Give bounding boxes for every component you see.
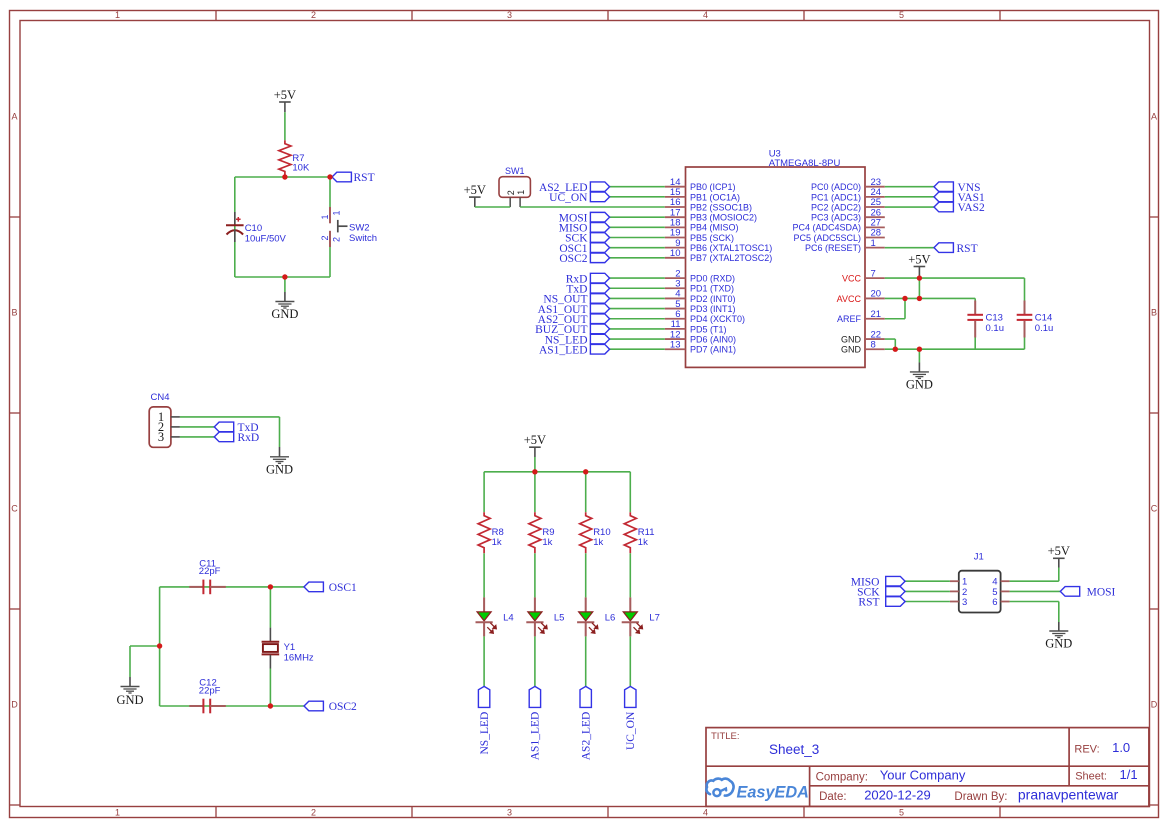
svg-text:L5: L5 (554, 613, 565, 624)
wire +5V to SW1 pin2 (475, 206, 510, 208)
svg-text:B: B (11, 308, 17, 318)
svg-text:21: 21 (871, 309, 882, 320)
switch SW1 box (499, 177, 530, 198)
connector CN4 body (149, 407, 171, 447)
svg-text:VCC: VCC (842, 274, 862, 284)
svg-text:+5V: +5V (524, 433, 546, 447)
svg-text:PB4 (MISO): PB4 (MISO) (690, 223, 739, 233)
LED L4 (476, 597, 514, 636)
wire left branch down to C10 (234, 177, 236, 277)
svg-text:RST: RST (858, 597, 879, 609)
svg-text:MOSI: MOSI (1087, 587, 1116, 599)
net flag UC_ON (549, 192, 609, 204)
net flag AS1_LED (529, 686, 542, 760)
resistor R10 1k (580, 512, 611, 553)
svg-text:C14: C14 (1035, 312, 1052, 323)
svg-text:10K: 10K (292, 163, 310, 174)
svg-text:2: 2 (311, 10, 316, 20)
net flag OSC2 (304, 701, 357, 713)
svg-text:3: 3 (158, 430, 164, 444)
resistor R11 1k (624, 512, 654, 553)
svg-text:CN4: CN4 (151, 392, 170, 403)
wire CN4 pin1 (180, 416, 280, 418)
junction LED rail b (583, 469, 588, 474)
power +5V (J1) (1048, 544, 1070, 567)
wire OSC2 to U3 (610, 257, 665, 259)
ground GND (crystal) (116, 646, 143, 707)
wire MOSI to U3 (610, 216, 665, 218)
U3 pin 23 PC0 (ADC0) (811, 177, 885, 192)
resistor R8 1k (478, 512, 504, 553)
capacitor C12 22pF (189, 678, 226, 714)
wire J1 pin4 up (1058, 568, 1060, 582)
svg-text:PD6 (AIN0): PD6 (AIN0) (690, 334, 736, 344)
svg-text:AS1_LED: AS1_LED (539, 344, 588, 356)
junction GND b (917, 347, 922, 352)
net flag AS2_OUT (538, 314, 610, 326)
wire AS2_OUT to U3 (610, 318, 665, 320)
svg-text:TITLE:: TITLE: (711, 731, 740, 742)
svg-text:UC_ON: UC_ON (625, 711, 637, 750)
wire MISO to U3 (610, 226, 665, 228)
U3 pin 8 GND (841, 339, 885, 354)
svg-text:L4: L4 (503, 613, 514, 624)
LED L5 (526, 597, 564, 636)
svg-text:10: 10 (670, 248, 681, 259)
net flag RST (top left) (332, 172, 375, 184)
junction VCC +5V (917, 275, 922, 280)
U3 pin 13 PD7 (AIN1) (665, 339, 736, 354)
wire RxD to U3 (610, 277, 665, 279)
switch SW2 (320, 207, 377, 247)
J1 pins 2/5 (950, 587, 1010, 598)
svg-text:VAS2: VAS2 (958, 202, 986, 214)
svg-text:SW1: SW1 (505, 166, 525, 176)
U3 pin 22 GND (841, 329, 885, 344)
wire AS1_LED to U3 (610, 348, 665, 350)
svg-text:L6: L6 (605, 613, 616, 624)
junction at RST wire (327, 174, 332, 179)
svg-text:GND: GND (841, 334, 862, 344)
wire SCK to J1 (905, 590, 950, 592)
svg-text:20: 20 (871, 289, 882, 300)
wire U3 PC6 to RST (885, 247, 934, 249)
wire TxD to U3 (610, 287, 665, 289)
net flag VAS2 (934, 202, 985, 214)
U3 pin 5 PD3 (INT1) (665, 299, 736, 314)
svg-text:GND: GND (266, 462, 293, 476)
wire AREF (885, 318, 905, 320)
svg-text:1k: 1k (593, 537, 603, 548)
title block frame (706, 728, 1149, 807)
U3 pin 27 PC4 (ADC4SDA) (792, 218, 884, 233)
svg-text:PC2 (ADC2): PC2 (ADC2) (811, 202, 861, 212)
J1 pins 3/6 (950, 597, 1010, 608)
net flag AS2_LED (580, 686, 593, 760)
net flag MOSI (1060, 587, 1115, 599)
svg-text:OSC2: OSC2 (559, 253, 587, 265)
net flag AS2_LED (539, 182, 610, 194)
net flag TxD (214, 422, 258, 434)
svg-text:NS_LED: NS_LED (479, 712, 491, 755)
wire CN4 pin2 to TxD (180, 426, 214, 428)
U3 pin 3 PD1 (TXD) (665, 278, 734, 293)
svg-text:13: 13 (670, 339, 681, 350)
svg-text:PC3 (ADC3): PC3 (ADC3) (811, 213, 861, 223)
wire C13 bottom (974, 338, 976, 350)
svg-text:1k: 1k (492, 537, 502, 548)
resistor R9 1k (529, 512, 555, 553)
svg-text:A: A (11, 112, 17, 122)
U3 pin 7 VCC (842, 268, 885, 283)
net flag MOSI (559, 212, 610, 224)
capacitor C11 22pF (189, 558, 226, 594)
wire L7 to flag (629, 636, 631, 686)
svg-text:1k: 1k (542, 537, 552, 548)
svg-text:+5V: +5V (464, 183, 486, 197)
net flag BUZ_OUT (535, 324, 609, 336)
net flag MISO (559, 223, 610, 235)
U3 pin 9 PB6 (XTAL1TOSC1) (665, 238, 772, 253)
LED L6 (577, 597, 615, 636)
wire xtal gnd stub (130, 645, 160, 647)
net flag OSC2 (559, 253, 609, 265)
svg-text:1: 1 (320, 214, 330, 219)
svg-text:2: 2 (332, 237, 342, 242)
net flag RST (right) (934, 243, 978, 255)
svg-text:0.1u: 0.1u (986, 323, 1005, 334)
svg-text:5: 5 (899, 808, 904, 818)
U3 pin 14 PB0 (ICP1) (665, 177, 736, 192)
svg-text:Company:: Company: (816, 771, 868, 783)
svg-text:GND: GND (116, 693, 143, 707)
net flag TxD (566, 283, 609, 295)
wire C13 top drop (974, 298, 976, 300)
svg-text:B: B (1151, 308, 1157, 318)
svg-text:PC4 (ADC4SDA): PC4 (ADC4SDA) (792, 223, 861, 233)
U3 pin 4 PD2 (INT0) (665, 289, 736, 304)
U3 pin 17 PB3 (MOSIOC2) (665, 207, 757, 222)
junction at R7 bottom (282, 174, 287, 179)
svg-text:PD1 (TXD): PD1 (TXD) (690, 284, 734, 294)
net flag RxD (214, 432, 259, 444)
wire Y1 bottom (269, 669, 271, 707)
junction bottom loop (282, 274, 287, 279)
wire J1 pin6 (1010, 601, 1059, 603)
svg-text:PB2 (SSOC1B): PB2 (SSOC1B) (690, 202, 752, 212)
net flag SCK (J1) (857, 587, 905, 599)
wire J1 pin4 (1010, 580, 1059, 582)
power +5V (VCC) (908, 252, 930, 278)
svg-text:16MHz: 16MHz (284, 653, 314, 664)
svg-text:4: 4 (703, 808, 708, 818)
svg-text:PB7 (XTAL2TOSC2): PB7 (XTAL2TOSC2) (690, 253, 772, 263)
wire LED rail (484, 471, 630, 473)
wire AVCC to AREF vertical (904, 298, 906, 318)
svg-text:1: 1 (115, 10, 120, 20)
wire U3 to VAS2 (885, 206, 934, 208)
U3 pin 2 PD0 (RXD) (665, 268, 735, 283)
svg-text:PC5 (ADC5SCL): PC5 (ADC5SCL) (793, 233, 861, 243)
power +5V (R7 branch) (274, 88, 296, 140)
net flag UC_ON (625, 686, 638, 750)
svg-text:C: C (11, 504, 18, 514)
net flag AS1_LED (539, 344, 610, 356)
net flag MISO (J1) (851, 576, 905, 588)
wire U3 to VNS (885, 186, 934, 188)
U3 pin 21 AREF (837, 309, 885, 324)
net flag OSC1 (559, 243, 609, 255)
wire GND bus (885, 348, 1025, 350)
U3 pin 10 PB7 (XTAL2TOSC2) (665, 248, 772, 263)
ground GND (J1) (1045, 602, 1072, 651)
wire node RST horizontal (235, 176, 330, 178)
wire L4 to flag (483, 636, 485, 686)
net flag SCK (565, 233, 609, 245)
svg-text:5: 5 (899, 10, 904, 20)
svg-text:PB6 (XTAL1TOSC1): PB6 (XTAL1TOSC1) (690, 243, 772, 253)
svg-text:SW2: SW2 (349, 223, 370, 234)
wire SW1 pin1 to U3 PB2 (520, 206, 665, 208)
U3 pin 18 PB4 (MISO) (665, 218, 739, 233)
crystal Y1 16MHz (262, 628, 314, 669)
wire rail to R10 (585, 472, 587, 512)
wire AS2_LED to U3 (610, 186, 665, 188)
svg-text:+5V: +5V (274, 88, 296, 102)
svg-text:4: 4 (703, 10, 708, 20)
svg-text:Sheet_3: Sheet_3 (769, 742, 819, 757)
U3 pin 26 PC3 (ADC3) (811, 207, 885, 222)
net flag VNS (934, 182, 981, 194)
wire rail to R9 (534, 472, 536, 512)
wire R11 to L7 (629, 553, 631, 597)
svg-text:Y1: Y1 (284, 642, 296, 653)
wire L5 to flag (534, 636, 536, 686)
net flag NS_OUT (543, 294, 609, 306)
svg-text:1: 1 (516, 190, 526, 195)
U3 pin 19 PB5 (SCK) (665, 228, 734, 243)
svg-text:22pF: 22pF (199, 566, 221, 577)
U3 pin 6 PD4 (XCKT0) (665, 309, 745, 324)
capacitor C14 0.1u (1017, 301, 1054, 338)
svg-text:UC_ON: UC_ON (549, 192, 588, 204)
CN4 pin 2 (158, 420, 180, 434)
wire CN4 pin1 down (279, 417, 281, 447)
svg-text:2020-12-29: 2020-12-29 (864, 788, 931, 803)
svg-text:AS2_LED: AS2_LED (581, 712, 593, 761)
power +5V (LED rail) (524, 433, 546, 471)
svg-text:1k: 1k (638, 537, 648, 548)
svg-text:GND: GND (1045, 637, 1072, 651)
wire R9 to L5 (534, 553, 536, 597)
net flag NS_LED (478, 686, 491, 754)
U3 pin 11 PD5 (T1) (665, 319, 727, 334)
net flag AS1_OUT (538, 304, 610, 316)
svg-text:2: 2 (506, 190, 516, 195)
wire GND pin22 stub (885, 338, 896, 340)
wire UC_ON to U3 (610, 196, 665, 198)
svg-text:22pF: 22pF (199, 685, 221, 696)
svg-text:OSC2: OSC2 (329, 701, 357, 713)
net flag RST (J1) (858, 597, 905, 609)
svg-text:1: 1 (115, 808, 120, 818)
wire VCC to AVCC vertical (918, 278, 920, 298)
junction GND a (893, 347, 898, 352)
U3 pin 12 PD6 (AIN0) (665, 329, 736, 344)
svg-text:+5V: +5V (908, 252, 930, 266)
wire AS1_OUT to U3 (610, 308, 665, 310)
svg-text:2: 2 (311, 808, 316, 818)
svg-text:PD7 (AIN1): PD7 (AIN1) (690, 345, 736, 355)
wire NS_LED to U3 (610, 338, 665, 340)
junction Y1 bottom (268, 703, 273, 708)
frame zone tick marks (215, 11, 217, 21)
svg-text:PC1 (ADC1): PC1 (ADC1) (811, 192, 861, 202)
connector J1 body (959, 571, 1001, 613)
CN4 pin 1 (158, 410, 180, 424)
wire OSC2 bottom rail (160, 705, 304, 707)
svg-text:J1: J1 (974, 552, 984, 563)
svg-text:PB3 (MOSIOC2): PB3 (MOSIOC2) (690, 213, 757, 223)
svg-text:PB5 (SCK): PB5 (SCK) (690, 233, 734, 243)
wire Y1 top (269, 587, 271, 628)
svg-text:2: 2 (320, 235, 330, 240)
capacitor C13 0.1u (967, 301, 1004, 338)
svg-text:8: 8 (871, 339, 876, 350)
svg-text:GND: GND (271, 307, 298, 321)
J1 pins 1/4 (950, 577, 1010, 588)
svg-text:C10: C10 (245, 223, 262, 234)
net flag VAS1 (934, 192, 985, 204)
resistor R7 10K (279, 140, 310, 177)
CN4 pin 3 (158, 430, 180, 444)
power +5V (SW1) (464, 183, 486, 207)
wire OSC1 top rail (160, 586, 304, 588)
svg-text:Date:: Date: (819, 791, 847, 803)
svg-text:GND: GND (841, 345, 862, 355)
wire AVCC rail (885, 297, 975, 299)
U3 pin 28 PC5 (ADC5SCL) (793, 228, 884, 243)
U3 pin 16 PB2 (SSOC1B) (665, 197, 752, 212)
svg-text:+5V: +5V (1048, 544, 1070, 558)
net flag NS_LED (545, 334, 610, 346)
wire NS_OUT to U3 (610, 297, 665, 299)
ground GND (U3 decoupling) (906, 349, 933, 391)
svg-text:PB0 (ICP1): PB0 (ICP1) (690, 182, 736, 192)
wire C14 bottom (1024, 338, 1026, 350)
junction LED rail a (532, 469, 537, 474)
EasyEDA logo (706, 779, 809, 802)
LED L7 (622, 597, 660, 636)
svg-text:1/1: 1/1 (1120, 767, 1138, 782)
svg-text:AVCC: AVCC (837, 294, 862, 304)
svg-text:3: 3 (507, 10, 512, 20)
wire U3 to VAS1 (885, 196, 934, 198)
svg-text:PB1 (OC1A): PB1 (OC1A) (690, 192, 740, 202)
svg-text:1: 1 (332, 210, 342, 215)
svg-text:PC6 (RESET): PC6 (RESET) (805, 243, 861, 253)
svg-text:Switch: Switch (349, 233, 377, 244)
junction xtal gnd (157, 643, 162, 648)
wire SW2 branch down (329, 177, 331, 207)
svg-text:D: D (1151, 700, 1158, 710)
svg-text:PD2 (INT0): PD2 (INT0) (690, 294, 736, 304)
svg-text:RST: RST (354, 172, 375, 184)
wire J1 pin5 to MOSI (1010, 590, 1061, 592)
svg-text:AREF: AREF (837, 314, 862, 324)
wire VCC rail (885, 277, 1025, 279)
svg-text:C: C (1151, 504, 1158, 514)
ground GND (R7 loop) (271, 277, 298, 321)
svg-text:L7: L7 (649, 613, 660, 624)
svg-text:Sheet:: Sheet: (1075, 771, 1107, 783)
svg-text:RST: RST (957, 243, 978, 255)
svg-text:6: 6 (992, 597, 997, 608)
svg-text:D: D (11, 700, 18, 710)
U3 pin 20 AVCC (837, 289, 885, 304)
junction Y1 top (268, 584, 273, 589)
wire bottom of loop (235, 276, 330, 278)
wire SCK to U3 (610, 237, 665, 239)
ground GND (CN4) (266, 447, 293, 476)
svg-text:PD5 (T1): PD5 (T1) (690, 324, 727, 334)
wire C14 top drop (1024, 278, 1026, 300)
wire L6 to flag (585, 636, 587, 686)
wire R10 to L6 (585, 553, 587, 597)
wire left vertical (xtal) (159, 587, 161, 706)
wire RST to J1 (905, 601, 950, 603)
svg-text:AS1_LED: AS1_LED (530, 712, 542, 761)
svg-text:EasyEDA: EasyEDA (737, 783, 809, 801)
svg-text:REV:: REV: (1074, 744, 1099, 756)
capacitor C10 10uF/50V (226, 212, 287, 245)
svg-text:1.0: 1.0 (1112, 740, 1130, 755)
svg-text:RxD: RxD (238, 432, 260, 444)
svg-text:1: 1 (871, 238, 876, 249)
svg-text:A: A (1151, 112, 1157, 122)
svg-text:PD4 (XCKT0): PD4 (XCKT0) (690, 314, 745, 324)
wire BUZ_OUT to U3 (610, 328, 665, 330)
IC U3 ATMEGA8L-8PU body (686, 167, 866, 367)
svg-text:7: 7 (871, 268, 876, 279)
svg-text:Drawn By:: Drawn By: (954, 791, 1007, 803)
U3 pin 15 PB1 (OC1A) (665, 187, 740, 202)
svg-text:pranavpentewar: pranavpentewar (1018, 787, 1119, 803)
svg-text:C13: C13 (986, 312, 1003, 323)
junction AVCC b (917, 296, 922, 301)
svg-text:0.1u: 0.1u (1035, 323, 1054, 334)
svg-text:PD3 (INT1): PD3 (INT1) (690, 304, 736, 314)
wire CN4 pin3 to RxD (180, 436, 214, 438)
svg-text:Your Company: Your Company (880, 768, 966, 783)
svg-text:3: 3 (507, 808, 512, 818)
wire rail to R8 (483, 472, 485, 512)
svg-text:10uF/50V: 10uF/50V (245, 234, 287, 245)
svg-text:GND: GND (906, 377, 933, 391)
U3 pin 1 PC6 (RESET) (805, 238, 885, 253)
svg-text:OSC1: OSC1 (329, 582, 357, 594)
junction AVCC a (902, 296, 907, 301)
svg-text:PC0 (ADC0): PC0 (ADC0) (811, 182, 861, 192)
wire GND pin22 down (894, 339, 896, 349)
wire rail to R11 (629, 472, 631, 512)
wire MISO to J1 (905, 580, 950, 582)
net flag RxD (566, 273, 610, 285)
U3 pin 24 PC1 (ADC1) (811, 187, 885, 202)
wire R8 to L4 (483, 553, 485, 597)
svg-text:PD0 (RXD): PD0 (RXD) (690, 274, 735, 284)
svg-text:3: 3 (962, 597, 967, 608)
